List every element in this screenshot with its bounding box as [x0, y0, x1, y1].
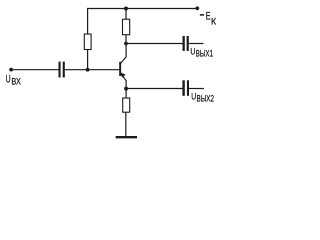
resistor R1 (base bias)	[84, 34, 91, 50]
svg-text:U: U	[191, 91, 196, 102]
capacitor C2 plate 2	[187, 36, 189, 51]
terminal: input Uвх	[9, 68, 13, 72]
resistor R2 (collector load)	[123, 19, 130, 35]
wire: rail corner down to R1 top	[87, 8, 89, 34]
svg-text:ВЫХ2: ВЫХ2	[197, 94, 215, 104]
resistor R3 (emitter load)	[123, 98, 130, 112]
ground	[116, 136, 138, 138]
transistor VT1 collector lead	[120, 57, 127, 65]
wire: C2 to output 1 stub	[189, 43, 204, 45]
wire: R2 bottom to collector node	[125, 35, 127, 44]
svg-text:К: К	[211, 17, 216, 28]
wire: base node to transistor base	[88, 69, 120, 71]
wire: input terminal to C1	[11, 69, 59, 71]
node: collector output junction	[124, 42, 128, 46]
wire: R3 bottom to ground	[125, 112, 127, 136]
wire: emitter node to C3	[126, 88, 182, 90]
transistor VT1 base bar	[119, 62, 121, 76]
wire: collector node down to transistor collector	[125, 44, 127, 57]
wire: C1 to base node	[65, 69, 88, 71]
capacitor C2 (output 1 coupling) plate 1	[183, 36, 185, 51]
wire: R1 bottom to base node	[87, 50, 89, 70]
svg-text:E: E	[206, 11, 211, 23]
wire: emitter to emitter node	[125, 80, 127, 89]
node: rail / R2 junction	[124, 7, 128, 11]
wire: rail node down to R2 top	[125, 9, 127, 20]
wire: collector node to C2	[126, 43, 183, 45]
capacitor C1 plate 2	[63, 62, 65, 78]
capacitor C3 plate 2	[187, 80, 189, 96]
svg-text:ВХ: ВХ	[11, 76, 21, 87]
transistor VT1 emitter arrow (PNP)	[120, 72, 126, 78]
wire: top supply rail	[88, 8, 198, 10]
capacitor C1 (input coupling) plate 1	[59, 62, 61, 78]
capacitor C3 (output 2 coupling) plate 1	[182, 80, 184, 96]
svg-text:ВЫХ1: ВЫХ1	[196, 49, 214, 59]
terminal: -Eк supply	[195, 6, 199, 10]
transistor VT1 emitter lead	[120, 72, 126, 81]
node: base junction	[86, 68, 90, 72]
node: emitter output junction	[124, 87, 128, 91]
wire: emitter node to R3 top	[125, 89, 127, 98]
svg-text:U: U	[6, 74, 11, 86]
label -Eк (supply): minus sign	[200, 14, 204, 15]
wire: C3 to output 2 stub	[189, 88, 204, 90]
